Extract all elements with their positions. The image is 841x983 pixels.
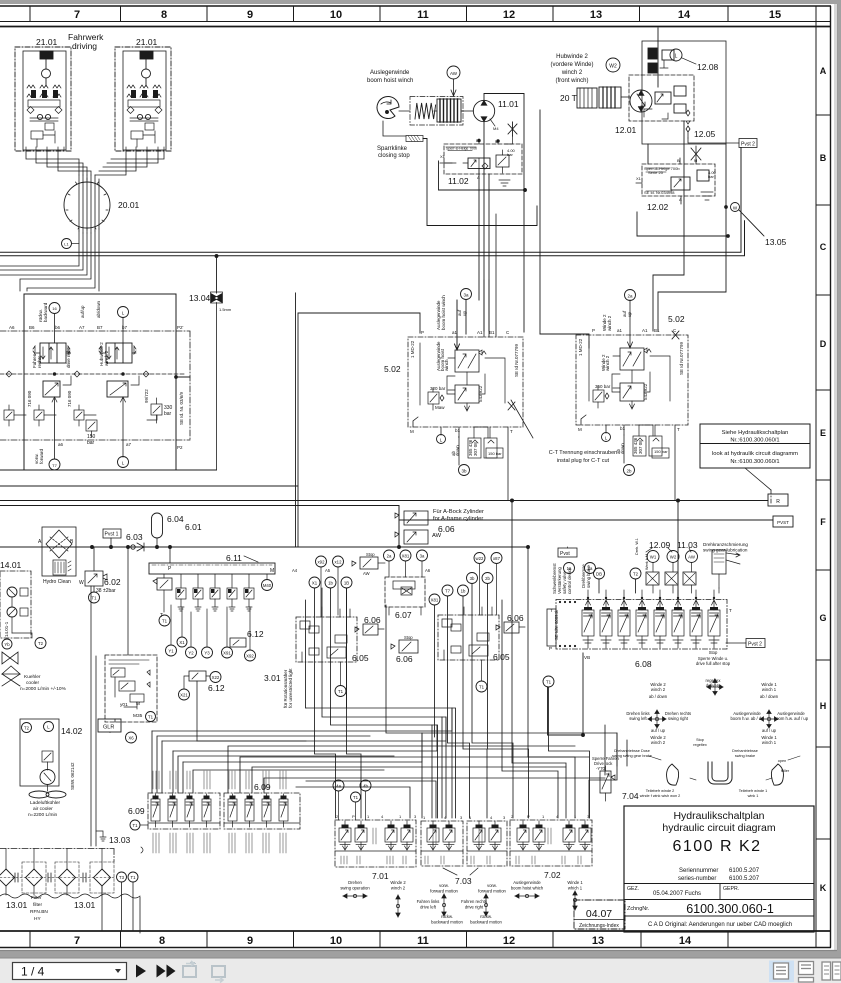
relief 12.05 <box>686 110 690 124</box>
last page button <box>157 965 166 978</box>
inner frame bottom <box>0 930 831 932</box>
svg-text:3a: 3a <box>420 554 425 559</box>
svg-text:4a: 4a <box>336 784 341 789</box>
svg-text:swing operation: swing operation <box>340 886 370 891</box>
svg-text:543 922: 543 922 <box>478 385 483 402</box>
lubrication block <box>712 550 726 574</box>
motor top wire to right <box>439 94 526 191</box>
svg-text:rechts: rechts <box>37 355 42 368</box>
svg-text:b1: b1 <box>620 426 626 431</box>
wire to Pvst 2 <box>688 138 739 143</box>
14.02 air cooler <box>20 719 66 798</box>
svg-text:(front winch): (front winch) <box>555 78 588 84</box>
svg-text:Seriennummer: Seriennummer <box>679 868 718 874</box>
A-frame valves 6.06 <box>395 506 428 547</box>
svg-text:11.02: 11.02 <box>448 176 469 186</box>
6.06 mid valve <box>399 640 418 653</box>
svg-text:T1: T1 <box>130 875 136 880</box>
bottom drain <box>548 653 584 735</box>
two page view icon <box>822 962 831 980</box>
Pvst 2 box <box>726 642 746 644</box>
svg-text:winch: winch <box>444 359 449 371</box>
svg-text:ab / down: ab / down <box>760 694 779 699</box>
svg-text:boom hoist winch: boom hoist winch <box>367 78 413 84</box>
svg-text:A5: A5 <box>325 568 331 573</box>
svg-text:13.01: 13.01 <box>6 900 28 910</box>
7.04 valve <box>600 766 615 801</box>
svg-text:14.01-1: 14.01-1 <box>4 621 9 637</box>
svg-text:10: 10 <box>330 9 342 21</box>
svg-text:X1: X1 <box>179 640 185 645</box>
Hydro Clean filter <box>42 527 76 576</box>
svg-text:Hubwinde 2: Hubwinde 2 <box>556 54 588 60</box>
left nest to 6.09 banks <box>306 588 618 818</box>
svg-text:A: A <box>679 197 682 202</box>
svg-text:7.01: 7.01 <box>372 871 389 881</box>
svg-text:Siehe Hydraulikschaltplan: Siehe Hydraulikschaltplan <box>722 430 789 436</box>
svg-text:Drehen: Drehen <box>348 880 362 885</box>
svg-text:Sperr-&-Helge 700b: Sperr-&-Helge 700b <box>446 147 477 151</box>
svg-text:6.06: 6.06 <box>396 654 413 664</box>
AW gauge <box>447 66 460 79</box>
svg-text:Filter: Filter <box>31 895 42 901</box>
svg-text:6.06: 6.06 <box>507 613 524 623</box>
svg-text:auf / up: auf / up <box>651 728 666 733</box>
svg-text:A1: A1 <box>477 330 483 335</box>
svg-text:W2: W2 <box>609 64 617 70</box>
svg-text:K: K <box>820 883 827 893</box>
svg-text:R: R <box>776 499 780 505</box>
svg-text:Y2: Y2 <box>188 651 194 656</box>
svg-text:P: P <box>527 814 530 819</box>
svg-text:13.01: 13.01 <box>74 900 96 910</box>
svg-text:1 / 4: 1 / 4 <box>21 965 45 979</box>
svg-text:Dreh. W.1: Dreh. W.1 <box>635 538 639 555</box>
svg-text:P: P <box>549 646 552 651</box>
svg-text:n=2000 L/min +/-10%: n=2000 L/min +/-10% <box>20 686 67 692</box>
svg-text:6.01: 6.01 <box>185 522 202 532</box>
manifold 6.11 <box>149 547 275 661</box>
svg-text:6.12: 6.12 <box>247 629 264 639</box>
svg-text:T7: T7 <box>445 589 451 594</box>
svg-text:SE Id. Nr.034998: SE Id. Nr.034998 <box>644 190 675 195</box>
svg-text:6100.5.207: 6100.5.207 <box>729 876 760 882</box>
svg-text:4b: 4b <box>363 784 368 789</box>
svg-text:Stop: Stop <box>696 738 704 742</box>
svg-text:swing swing gear brake: swing swing gear brake <box>612 754 652 758</box>
right letters <box>819 66 826 893</box>
svg-text:B7: B7 <box>97 325 103 330</box>
hydraulic motor 11.01 <box>473 100 494 121</box>
svg-text:AW: AW <box>450 71 458 76</box>
svg-text:T3: T3 <box>119 875 125 880</box>
svg-text:Hydraulikschaltplan: Hydraulikschaltplan <box>673 810 764 822</box>
svg-text:Auslegerwinde: Auslegerwinde <box>370 70 410 76</box>
tank <box>0 849 140 934</box>
svg-text:auf/up: auf/up <box>80 305 85 318</box>
svg-text:Fahren links: Fahren links <box>417 899 440 904</box>
svg-text:20 T: 20 T <box>560 93 577 103</box>
Pvst box left <box>558 548 577 557</box>
svg-text:vorw.: vorw. <box>487 883 497 888</box>
svg-text:a7: a7 <box>126 442 132 447</box>
svg-text:for A-frame cylinder: for A-frame cylinder <box>433 516 483 522</box>
next page button <box>136 965 146 978</box>
accumulator 6.04 <box>152 513 163 538</box>
svg-text:L1: L1 <box>64 242 69 247</box>
svg-text:320 bar: 320 bar <box>430 386 446 391</box>
tiny rotated tags above/below 6.09 units <box>153 771 286 853</box>
svg-text:which 1: which 1 <box>568 886 583 891</box>
svg-text:ZchngNr.: ZchngNr. <box>627 906 650 912</box>
solenoid boxes <box>646 572 659 585</box>
svg-text:B1: B1 <box>654 328 660 333</box>
svg-text:3.01: 3.01 <box>264 673 281 683</box>
150 bar relief <box>86 420 97 431</box>
svg-text:7: 7 <box>74 935 80 947</box>
X orifice box <box>401 587 412 595</box>
svg-text:P2': P2' <box>177 325 184 330</box>
svg-text:6.05: 6.05 <box>352 653 369 663</box>
motor <box>630 90 652 112</box>
svg-text:Nr.:6100.300.060/1: Nr.:6100.300.060/1 <box>730 438 779 444</box>
svg-text:1 MD-22: 1 MD-22 <box>410 340 415 358</box>
svg-text:716 090: 716 090 <box>67 390 72 407</box>
bank outline <box>556 600 727 650</box>
svg-text:look at hydraulik circuit diag: look at hydraulik circuit diagramm <box>712 451 798 457</box>
svg-text:(vordere Winde): (vordere Winde) <box>550 62 593 68</box>
6.07 manifold <box>385 577 425 607</box>
svg-text:Für A-Bock Zylinder: Für A-Bock Zylinder <box>433 509 484 515</box>
svg-text:6100.5.207: 6100.5.207 <box>729 868 760 874</box>
svg-text:Zeichnungs-Index: Zeichnungs-Index <box>579 923 619 929</box>
svg-text:backward: backward <box>43 302 48 322</box>
svg-text:W2: W2 <box>670 555 677 560</box>
svg-text:for unrestricted light: for unrestricted light <box>288 668 293 708</box>
svg-text:A1: A1 <box>642 328 648 333</box>
solenoid labels <box>647 551 659 563</box>
svg-text:winch 2: winch 2 <box>651 740 666 745</box>
svg-text:boom h.w. auf / up: boom h.w. auf / up <box>774 716 809 721</box>
svg-text:a1: a1 <box>452 330 458 335</box>
svg-text:A7: A7 <box>79 325 85 330</box>
relief left <box>157 578 172 590</box>
top port dots <box>588 590 714 598</box>
svg-text:A6: A6 <box>9 325 15 330</box>
pump control block <box>105 655 157 722</box>
hand pump with pawl <box>377 97 399 119</box>
wires below block <box>0 293 298 547</box>
svg-text:backward motion: backward motion <box>470 920 502 925</box>
svg-text:Y1: Y1 <box>168 649 174 654</box>
block A dash-dot <box>296 607 357 662</box>
svg-text:716 090: 716 090 <box>27 390 32 407</box>
svg-text:6.07: 6.07 <box>395 610 412 620</box>
wires down from legends to 7.02/7.04 <box>605 725 627 775</box>
svg-text:5.02: 5.02 <box>384 364 401 374</box>
right outer frame <box>830 6 832 948</box>
continuous view icon <box>799 962 814 975</box>
svg-text:350 bar: 350 bar <box>595 384 611 389</box>
svg-text:6100 R K2: 6100 R K2 <box>672 838 761 855</box>
svg-text:closing stop: closing stop <box>378 153 410 159</box>
valve block 12.01 <box>629 75 694 121</box>
svg-text:drive right: drive right <box>66 347 71 368</box>
svg-text:RFN.BN: RFN.BN <box>30 909 48 915</box>
svg-text:up: up <box>627 311 632 317</box>
svg-text:boom h.w. ab / dn: boom h.w. ab / dn <box>730 716 764 721</box>
wires to page left edge <box>0 229 99 291</box>
svg-text:X1: X1 <box>312 581 318 586</box>
port dash-dot line <box>0 331 190 440</box>
P1..P5 valves <box>176 574 254 611</box>
rotary joint 20.01 <box>64 175 110 233</box>
svg-text:B: B <box>820 153 827 163</box>
bottom ruler line <box>0 947 831 949</box>
svg-text:6.08: 6.08 <box>635 659 652 669</box>
svg-text:14.01: 14.01 <box>0 560 22 570</box>
svg-text:6.11: 6.11 <box>226 553 242 563</box>
svg-text:M40: M40 <box>263 583 272 588</box>
svg-text:boom hoist winch: boom hoist winch <box>441 295 446 330</box>
svg-text:04.07: 04.07 <box>586 908 612 920</box>
toolbar <box>0 958 841 983</box>
right letter column ticks <box>816 115 831 839</box>
svg-text:VB: VB <box>584 655 590 660</box>
svg-text:05.04.2007 Fuchs: 05.04.2007 Fuchs <box>653 891 701 897</box>
svg-text:swing brake: swing brake <box>586 564 591 588</box>
svg-text:T7: T7 <box>52 463 57 468</box>
6.02 pressure valve <box>85 547 107 603</box>
svg-text:307 08: 307 08 <box>638 440 643 454</box>
svg-text:PVST: PVST <box>777 520 789 525</box>
svg-text:P: P <box>421 330 424 335</box>
svg-text:M: M <box>410 429 414 434</box>
svg-text:14.02: 14.02 <box>61 726 83 736</box>
svg-text:T1: T1 <box>546 680 552 685</box>
svg-text:20.01: 20.01 <box>118 200 140 210</box>
320 bar relief <box>428 392 439 404</box>
travel drive valve block 21.01 (left) <box>15 47 71 151</box>
block internals wires <box>420 343 505 405</box>
svg-text:b1: b1 <box>455 428 461 433</box>
svg-text:B1: B1 <box>489 330 495 335</box>
svg-text:Hydro Clean: Hydro Clean <box>43 579 71 585</box>
svg-text:Yb: Yb <box>4 642 10 647</box>
svg-text:Ladeluftkühler: Ladeluftkühler <box>30 800 61 806</box>
GLR box <box>98 719 121 732</box>
svg-text:x92: x92 <box>318 560 326 565</box>
svg-text:C A D Original: Aenderunge: C A D Original: Aenderungen nur ueber CA… <box>648 922 792 928</box>
page bottom shadow band <box>0 950 841 958</box>
top ruler ticks <box>30 6 728 22</box>
svg-text:Stop: Stop <box>404 635 413 640</box>
svg-text:D: D <box>820 339 827 349</box>
svg-text:SE Id Nr.077799: SE Id Nr.077799 <box>679 341 684 375</box>
node at 13.04 drop <box>215 255 218 258</box>
inner valve stack <box>455 350 479 372</box>
svg-text:drive full after stop: drive full after stop <box>696 661 731 666</box>
svg-text:AW: AW <box>363 571 370 576</box>
svg-text:down: down <box>455 445 460 456</box>
svg-text:3b: 3b <box>470 576 475 581</box>
pressure feed bus upper <box>0 148 745 256</box>
svg-text:SEW. 062142: SEW. 062142 <box>70 762 75 790</box>
svg-text:6.03: 6.03 <box>126 532 143 542</box>
svg-text:Winde 1: Winde 1 <box>567 880 583 885</box>
svg-text:Pvst 1: Pvst 1 <box>105 532 119 538</box>
svg-text:12: 12 <box>503 935 515 947</box>
T1 circles <box>335 686 346 697</box>
svg-text:P2: P2 <box>177 445 183 450</box>
svg-text:1.5mm: 1.5mm <box>219 307 232 312</box>
port digits above banks <box>336 814 590 820</box>
svg-text:1b: 1b <box>461 589 466 594</box>
wires from blocks to rotary joint <box>26 151 164 175</box>
node L1 <box>62 239 72 249</box>
svg-text:38 ±2bar: 38 ±2bar <box>96 588 116 594</box>
svg-text:vorw.: vorw. <box>439 883 449 888</box>
6.12 lower <box>189 671 206 681</box>
svg-text:8: 8 <box>161 9 167 21</box>
svg-text:6.05: 6.05 <box>493 652 510 662</box>
svg-text:2a: 2a <box>387 554 392 559</box>
svg-text:a6: a6 <box>58 442 64 447</box>
svg-text:21.01: 21.01 <box>136 37 158 47</box>
svg-text:1 MD-22: 1 MD-22 <box>578 338 583 356</box>
bottom ports and accessories <box>413 417 508 500</box>
svg-text:T: T <box>510 429 513 434</box>
svg-text:P: P <box>592 328 595 333</box>
svg-text:11: 11 <box>417 9 429 21</box>
svg-text:6.09: 6.09 <box>128 806 145 816</box>
8 valve units <box>582 600 720 648</box>
right nest to 7.x banks <box>435 584 559 818</box>
svg-text:12.01: 12.01 <box>615 125 637 135</box>
svg-text:driving: driving <box>72 41 97 51</box>
6.03 check valve <box>137 543 144 551</box>
svg-text:T: T <box>729 608 732 613</box>
svg-text:forward motion: forward motion <box>430 889 458 894</box>
svg-text:T1: T1 <box>148 715 154 720</box>
block outline <box>408 337 523 427</box>
svg-text:bar: bar <box>708 174 714 179</box>
svg-text:7: 7 <box>74 9 80 21</box>
pawl linkage <box>383 121 406 136</box>
svg-text:21.01: 21.01 <box>36 37 58 47</box>
svg-text:X81: X81 <box>431 598 439 603</box>
svg-text:Drehantriebsse Dose: Drehantriebsse Dose <box>614 749 650 753</box>
svg-text:X6: X6 <box>128 736 134 741</box>
svg-text:AW: AW <box>432 533 442 539</box>
svg-text:A: A <box>820 66 827 76</box>
svg-text:6.06: 6.06 <box>364 615 381 625</box>
outer frame top <box>0 5 831 7</box>
svg-text:boom hoist which: boom hoist which <box>511 886 544 891</box>
top ruler numbers <box>74 9 781 21</box>
svg-text:L: L <box>675 54 678 60</box>
svg-text:Maw: Maw <box>435 405 445 410</box>
svg-text:b7: b7 <box>122 325 128 330</box>
svg-text:n=2200 L/min: n=2200 L/min <box>28 812 58 818</box>
svg-text:13.04: 13.04 <box>189 293 211 303</box>
svg-text:15: 15 <box>769 9 781 21</box>
legend arrows below banks <box>343 891 577 917</box>
solenoid circles <box>49 303 60 314</box>
svg-text:1B: 1B <box>344 581 349 586</box>
svg-text:backward motion: backward motion <box>431 920 463 925</box>
svg-text:instal plug for C-T cut: instal plug for C-T cut <box>557 458 610 464</box>
legends below banks <box>340 880 583 925</box>
svg-text:air cooler: air cooler <box>33 806 53 812</box>
brake valve block 11.02 <box>440 139 522 186</box>
svg-text:drive right: drive right <box>465 905 484 910</box>
svg-text:w22: w22 <box>476 556 484 561</box>
svg-text:GLR: GLR <box>103 725 114 731</box>
330 bar relief <box>151 404 162 415</box>
winch1 risers to control block <box>466 122 524 334</box>
svg-text:12.09: 12.09 <box>649 540 671 550</box>
main pressure buses lower <box>0 499 773 600</box>
svg-text:auf / up: auf / up <box>762 728 777 733</box>
svg-text:SE Id Nr.077799: SE Id Nr.077799 <box>514 343 519 377</box>
block B dash-dot <box>438 607 499 660</box>
svg-text:winch 2: winch 2 <box>607 315 612 331</box>
svg-text:H: H <box>820 701 827 711</box>
top port lines <box>628 300 633 348</box>
svg-text:forward: forward <box>39 448 44 464</box>
svg-text:Sparrklinke: Sparrklinke <box>377 146 408 152</box>
svg-text:X92: X92 <box>246 654 254 659</box>
svg-text:13.05: 13.05 <box>765 237 787 247</box>
svg-text:M35: M35 <box>133 713 143 719</box>
svg-text:9: 9 <box>247 935 253 947</box>
svg-text:winch 2: winch 2 <box>561 70 583 76</box>
svg-text:7.02: 7.02 <box>544 870 561 880</box>
main pump line <box>0 546 528 548</box>
disabled rotate icons <box>183 963 225 977</box>
svg-text:X81: X81 <box>402 554 410 559</box>
assembly 12.08 <box>642 41 726 144</box>
svg-text:T1: T1 <box>91 596 97 601</box>
sandwich plates below <box>468 438 481 458</box>
svg-text:M: M <box>136 701 140 707</box>
svg-text:99/722: 99/722 <box>144 389 149 403</box>
svg-text:open: open <box>778 759 786 763</box>
svg-text:cooler: cooler <box>26 680 39 686</box>
orifice 13.04 <box>211 294 222 303</box>
svg-text:B: B <box>677 158 680 163</box>
svg-text:Werk b.M.: Werk b.M. <box>645 553 649 570</box>
svg-text:Drehkranzschmierung: Drehkranzschmierung <box>703 542 748 547</box>
14.01 block <box>0 571 46 649</box>
svg-text:7.03: 7.03 <box>455 876 472 886</box>
C-T plug mark <box>508 400 533 438</box>
svg-text:swing gear lubrication: swing gear lubrication <box>703 548 748 553</box>
svg-text:X1: X1 <box>636 176 642 181</box>
svg-text:a1: a1 <box>617 328 623 333</box>
inner frame top <box>0 26 831 28</box>
6.06 valve right of block B <box>504 622 519 633</box>
svg-text:forward motion: forward motion <box>478 889 506 894</box>
Pvst 1 tap <box>103 529 121 538</box>
svg-text:M: M <box>270 568 274 574</box>
svg-text:regeltex: regeltex <box>693 743 707 747</box>
svg-text:y01: y01 <box>120 702 128 708</box>
svg-text:T1: T1 <box>353 795 359 800</box>
svg-text:6.09: 6.09 <box>254 782 271 792</box>
svg-text:Stop: Stop <box>366 552 375 557</box>
